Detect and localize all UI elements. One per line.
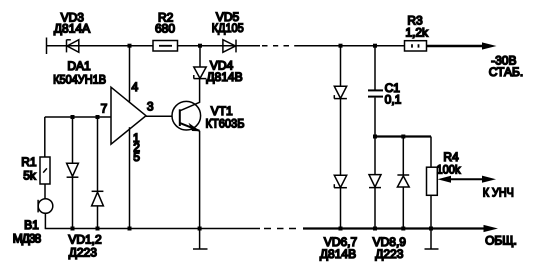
microphone B1 [38, 199, 53, 214]
wire pin 7 horizontal [45, 116, 111, 118]
capacitor C1 [368, 46, 383, 136]
node pins 1,2,5 bottom junction [128, 227, 132, 231]
resistor R2 [153, 41, 178, 52]
diode VD9 [397, 137, 409, 229]
bottom bus right segment (thick, to arrow) [303, 225, 498, 232]
svg-text:DA1: DA1 [67, 59, 91, 73]
node VD7 bottom junction [339, 227, 343, 231]
zener diode VD6 [334, 46, 347, 99]
svg-text:ОБЩ.: ОБЩ. [485, 233, 517, 247]
svg-text:5k: 5k [23, 168, 37, 182]
bottom bus dashed [264, 228, 296, 230]
node pin4 junction [128, 44, 132, 48]
svg-text:B1: B1 [24, 218, 39, 232]
node VD1 top junction [71, 115, 75, 119]
svg-text:4: 4 [131, 80, 138, 94]
wire mid horizontal (thick) [374, 135, 431, 137]
node VD2 bottom junction [96, 227, 100, 231]
svg-text:0,1: 0,1 [385, 93, 402, 107]
wire collector up [199, 79, 201, 103]
svg-text:5: 5 [133, 150, 140, 164]
resistor R3 [405, 41, 427, 51]
diode VD1 [67, 117, 79, 229]
ground tick below R4 [425, 229, 439, 250]
zener diode VD3 [67, 40, 79, 53]
diode VD5 [223, 40, 236, 53]
wire to R4 top [430, 137, 432, 168]
svg-text:МД38: МД38 [13, 231, 42, 245]
diode VD8 [369, 137, 381, 229]
svg-text:К504УН1В: К504УН1В [53, 73, 106, 87]
svg-text:7: 7 [101, 102, 108, 116]
wire R1 to B1 [44, 184, 46, 199]
wire top bus left segment [47, 45, 154, 47]
wire R4 bottom [430, 195, 432, 228]
node VD9 junction [401, 135, 405, 139]
node VD1 bottom junction [71, 227, 75, 231]
svg-text:КД105: КД105 [212, 21, 244, 35]
svg-text:100k: 100k [437, 162, 462, 176]
wire R1 column top [44, 117, 46, 157]
svg-text:СТАБ.: СТАБ. [489, 65, 523, 79]
zener diode VD4 [194, 46, 207, 79]
wire top bus right segment [301, 45, 405, 47]
zener diode VD7 [334, 175, 347, 228]
svg-text:Д814А: Д814А [54, 22, 90, 36]
node VD9 bottom junction [401, 227, 405, 231]
svg-text:1,2k: 1,2k [405, 26, 429, 40]
svg-text:680: 680 [155, 22, 175, 36]
svg-text:Д814В: Д814В [206, 70, 242, 84]
wire B1 to bottom bus [44, 214, 46, 229]
wire pins 1,2,5 down [129, 127, 131, 228]
node VD8 bottom junction [373, 227, 377, 231]
node VD2 top junction [96, 115, 100, 119]
wire emitter down [199, 131, 201, 229]
wire top bus dashed [262, 45, 301, 47]
svg-text:Д223: Д223 [375, 247, 403, 261]
potentiometer R4 [427, 167, 438, 195]
wire op-amp output to base [146, 115, 172, 117]
op-amp DA1 [111, 87, 146, 144]
diode VD2 [92, 117, 104, 229]
svg-text:Д814В: Д814В [320, 247, 356, 261]
transistor VT1 [172, 101, 201, 131]
wire output -30V (thick with arrow) [427, 42, 497, 49]
bottom bus left segment [45, 228, 260, 230]
svg-text:КТ603Б: КТ603Б [206, 116, 245, 130]
node emitter bottom junction [198, 227, 202, 231]
wire VD6 to VD7 [340, 99, 342, 176]
wire top bus mid segment [178, 45, 261, 47]
svg-text:К УНЧ: К УНЧ [483, 185, 514, 199]
svg-text:R1: R1 [21, 155, 37, 169]
ground tick below emitter [193, 229, 208, 250]
node VD8 junction [373, 135, 377, 139]
node VD6 top junction [339, 44, 343, 48]
terminal tick top-left [46, 38, 48, 55]
svg-text:Д223: Д223 [69, 245, 97, 259]
wiper arrow to К УНЧ [438, 176, 497, 183]
wire pin 4 [129, 46, 131, 102]
svg-text:3: 3 [147, 100, 154, 114]
node C1 top junction [373, 44, 377, 48]
resistor R1 [40, 157, 50, 184]
node R4 bottom junction [429, 227, 433, 231]
node VD4 junction [198, 44, 202, 48]
